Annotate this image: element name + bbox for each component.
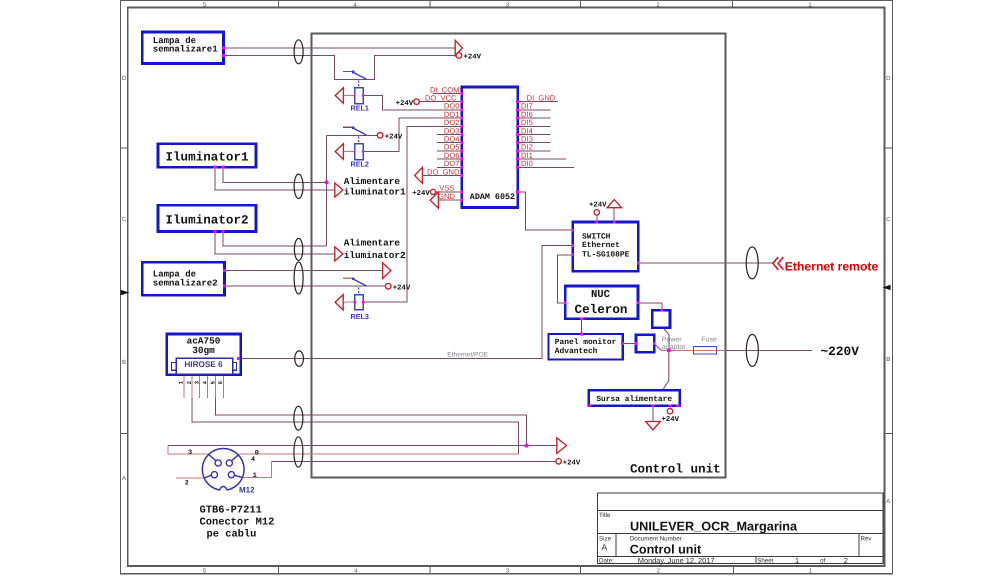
- svg-text:Rev: Rev: [861, 536, 873, 543]
- svg-text:HIROSE 6: HIROSE 6: [184, 360, 223, 369]
- svg-text:B: B: [886, 356, 890, 363]
- pin dots iluminator2: [214, 230, 217, 233]
- wire iluminator2 pin2 to feed bus end: [223, 232, 327, 246]
- relay REL2 coil: [351, 144, 369, 169]
- wire REL2 coil left to flag: [343, 151, 354, 153]
- node +24V switch: [589, 202, 607, 216]
- M12 pin2 lead: [204, 475, 211, 478]
- svg-text:Control unit: Control unit: [630, 543, 702, 557]
- svg-text:REL3: REL3: [351, 312, 369, 321]
- pin dots REL2 coil: [353, 150, 355, 152]
- M12 pin top-right: [226, 460, 232, 466]
- zone numbers top: [203, 1, 813, 8]
- junction dot 220V: [667, 348, 671, 352]
- wire 220V junction down to sursa alimentare: [663, 350, 669, 390]
- port flag lampa2 arrow: [383, 263, 391, 279]
- pin dots ADAM left: [460, 92, 463, 95]
- svg-text:+24V: +24V: [662, 416, 680, 424]
- wire switch pin3 to NUC left: [557, 255, 572, 303]
- svg-text:TL-SG108PE: TL-SG108PE: [582, 250, 630, 259]
- cable ellipse camera bus: [294, 406, 303, 430]
- zone letters right: [886, 75, 891, 505]
- wire REL1 coil left to flag: [343, 95, 354, 97]
- wire ADAM DI4 stub: [518, 134, 551, 136]
- title block labels: [599, 512, 872, 565]
- flag GND: [430, 192, 438, 208]
- svg-text:Conector M12: Conector M12: [200, 517, 275, 529]
- svg-text:SWITCH: SWITCH: [582, 232, 611, 241]
- component switch ethernet TL-SG108PE: [573, 222, 639, 271]
- svg-text:Sheet: Sheet: [757, 558, 773, 565]
- flag REL1 coil input: [335, 88, 343, 104]
- wire ADAM DO_VCC from +24V node: [419, 101, 461, 103]
- wire ADAM DI7 stub: [518, 109, 551, 111]
- cable ellipse lampa1: [294, 40, 303, 64]
- wire camera pin3 stub: [199, 375, 201, 398]
- wire ADAM DI0 stub: [518, 166, 575, 168]
- junction dot M12 bus: [524, 444, 528, 448]
- node +24V DO_VCC: [396, 99, 420, 108]
- component camera acA750 30gm: [167, 334, 241, 375]
- wire sursa to +24V node: [669, 406, 671, 409]
- flag alimentare iluminator1: [335, 176, 406, 197]
- pin dot camera: [237, 357, 240, 360]
- svg-text:REL2: REL2: [351, 160, 369, 169]
- wire lampa1 pin2 through REL1 contact to +24V node: [224, 56, 457, 80]
- label power adaptor: [662, 337, 686, 352]
- svg-text:30gm: 30gm: [192, 345, 215, 356]
- svg-text:adaptor: adaptor: [662, 343, 686, 351]
- flag alimentare iluminator2: [335, 238, 406, 261]
- svg-text:Celeron: Celeron: [575, 303, 628, 317]
- svg-text:~220V: ~220V: [821, 344, 860, 359]
- svg-text:1: 1: [795, 556, 799, 565]
- svg-text:GTB6-P7211: GTB6-P7211: [200, 505, 262, 517]
- wire lampa2 pin1 to port flag: [225, 270, 383, 272]
- svg-text:GND: GND: [438, 192, 455, 201]
- svg-text:DI0: DI0: [521, 159, 533, 168]
- svg-text:Ethernet remote: Ethernet remote: [785, 260, 879, 274]
- svg-text:+24V: +24V: [393, 284, 411, 292]
- wire adaptor block2 to 220V junction: [654, 344, 669, 350]
- svg-text:Panel monitor: Panel monitor: [555, 338, 617, 347]
- wire switch +24V stub: [596, 215, 598, 222]
- flag DO_GND: [415, 167, 423, 183]
- svg-text:Iluminator2: Iluminator2: [165, 213, 248, 227]
- svg-text:+24V: +24V: [464, 54, 482, 62]
- component iluminator2: [158, 205, 256, 231]
- power adaptor block1: [652, 310, 670, 328]
- pin dots REL3 coil: [354, 301, 356, 303]
- wire M12 pin1 to +24V node: [272, 460, 556, 462]
- power adaptor block2: [636, 335, 654, 353]
- M12 pin4 lead: [232, 454, 239, 460]
- cable ellipse lampa2: [294, 262, 303, 294]
- wire NUC right to adaptor block1: [638, 303, 662, 310]
- M12 pin bottom-right: [228, 472, 234, 478]
- svg-text:A: A: [122, 475, 126, 482]
- connector M12 body: [202, 449, 244, 495]
- svg-text:Power: Power: [662, 337, 683, 344]
- wire ADAM DI_GND stub: [518, 101, 558, 103]
- wire REL3 coil left to flag: [343, 301, 355, 303]
- svg-text:1: 1: [253, 472, 257, 480]
- port flag +24V top right arrow: [455, 40, 462, 55]
- wire ADAM DO5 stub: [437, 150, 462, 152]
- wire iluminator1 pin2 to feed bus junction: [223, 167, 327, 182]
- svg-text:3: 3: [188, 449, 192, 457]
- flag REL3 coil input: [335, 295, 343, 310]
- component iluminator1: [158, 144, 256, 167]
- wire iluminator1 pin1 to alimentare flag: [215, 167, 335, 190]
- wire NUC bottom to panel monitor: [581, 319, 583, 334]
- svg-text:DO_GND: DO_GND: [427, 167, 460, 176]
- zone letters left: [122, 75, 127, 482]
- wire ADAM GND to flag: [438, 199, 461, 201]
- wire ADAM ethernet pin to switch pin1: [518, 192, 573, 230]
- wire ADAM DI2 stub: [518, 150, 551, 152]
- wire camera pin5 to M12 bus: [216, 398, 527, 446]
- svg-text:+24V: +24V: [563, 460, 581, 468]
- component lampa de semnalizare2: [142, 262, 224, 295]
- M12 pin top-left: [215, 460, 221, 466]
- svg-text:iluminator2: iluminator2: [344, 250, 406, 261]
- svg-text:pe cablu: pe cablu: [207, 529, 257, 541]
- svg-text:Fuse: Fuse: [701, 337, 717, 344]
- svg-text:D: D: [122, 75, 127, 82]
- relay REL1 contact: [343, 71, 367, 88]
- svg-text:+24V: +24V: [412, 190, 430, 198]
- svg-text:Document Number: Document Number: [630, 536, 682, 543]
- svg-text:Iluminator1: Iluminator1: [165, 150, 249, 164]
- svg-text:UNILEVER_OCR_Margarina: UNILEVER_OCR_Margarina: [630, 520, 798, 534]
- right border center arrow: [883, 285, 891, 290]
- label GTB6-P7211 connector: [200, 505, 275, 541]
- wire fuse to ~220V source: [717, 349, 726, 351]
- svg-text:Advantech: Advantech: [555, 347, 598, 356]
- wire ADAM DI5 stub: [518, 125, 551, 127]
- wire REL2 contact to +24V node: [327, 134, 378, 136]
- cable ellipse M12 bus: [294, 437, 303, 467]
- component sursa alimentare: [589, 390, 680, 405]
- pin dots lampa1: [222, 47, 225, 50]
- svg-text:of: of: [820, 558, 825, 565]
- connector HIROSE 6: [172, 358, 237, 374]
- relay REL2 contact: [343, 126, 367, 143]
- node +24V sursa: [662, 409, 680, 424]
- svg-text:Monday, June 12, 2017: Monday, June 12, 2017: [638, 556, 715, 565]
- wire 220V junction to fuse: [662, 349, 694, 351]
- control unit enclosure box: [312, 33, 726, 477]
- svg-text:semnalizare1: semnalizare1: [153, 45, 218, 55]
- pin dots REL1 coil: [353, 94, 355, 96]
- wire ADAM DO4 stub: [437, 142, 462, 144]
- node +24V REL2 contact: [377, 133, 403, 142]
- svg-text:Sursa alimentare: Sursa alimentare: [596, 395, 672, 404]
- node +24V top circle: [456, 53, 482, 62]
- svg-text:+24V: +24V: [589, 202, 607, 210]
- wire camera pin4 stub: [207, 375, 209, 398]
- wire ADAM DO_GND to flag: [422, 175, 461, 177]
- svg-text:Date:: Date:: [599, 558, 614, 565]
- svg-text:D: D: [886, 75, 891, 82]
- relay REL1 coil: [351, 88, 369, 113]
- svg-text:Ethernet: Ethernet: [582, 241, 620, 250]
- wire M12 pin3 horizontal: [168, 445, 527, 447]
- svg-text:C: C: [122, 216, 127, 223]
- fuse F1: [694, 347, 717, 355]
- svg-text:4: 4: [251, 456, 255, 464]
- wire ADAM DI6 stub: [518, 117, 551, 119]
- wire lampa1 pin1 to +24V flag: [224, 47, 456, 49]
- ground flag sursa: [646, 422, 661, 431]
- wire M12 pin4 to camera bus: [239, 453, 518, 455]
- wire camera pin2 to M12 pin4 bus: [192, 398, 518, 454]
- M12 pin bottom-left: [211, 472, 217, 478]
- wire M12 pin2 stub: [176, 477, 204, 479]
- relay REL3 coil: [351, 295, 369, 321]
- cable ellipse ethernet poe: [295, 351, 304, 366]
- pin dots panel monitor: [580, 333, 583, 336]
- svg-text:NUC: NUC: [591, 289, 611, 301]
- pin dots adaptor block2: [635, 342, 638, 345]
- module ADAM 6052: [462, 87, 518, 208]
- svg-text:0: 0: [255, 449, 259, 457]
- M12 pin3 lead: [209, 454, 216, 460]
- cable ellipse iluminator2: [294, 238, 302, 260]
- pin dot adaptor block1: [660, 309, 663, 312]
- camera pin numbers 1-6: [178, 380, 225, 384]
- relay REL3 contact: [343, 277, 367, 294]
- svg-text:C: C: [886, 216, 891, 223]
- wire REL3 coil right to ADAM DO2: [363, 126, 461, 302]
- sheet outer border: [121, 1, 893, 574]
- wire switch power flag stub: [613, 208, 615, 222]
- svg-text:Alimentare: Alimentare: [344, 238, 401, 249]
- wire REL1 coil right to ADAM DO0: [363, 96, 462, 110]
- flag REL2 coil input: [335, 144, 343, 160]
- flag M12 bus arrow: [557, 438, 567, 454]
- wire ADAM DI3 stub: [518, 142, 551, 144]
- wire REL2 coil right to ADAM DO1: [363, 118, 462, 151]
- node +24V REL3 contact: [385, 283, 411, 292]
- cable ellipse ethernet remote: [746, 247, 758, 279]
- zone tick marks: [121, 1, 893, 574]
- pin dots ADAM right: [516, 100, 519, 103]
- pin dots lampa2: [223, 269, 226, 272]
- cable ellipse 220V: [746, 334, 758, 366]
- wire REL2 feed vertical bus: [326, 135, 328, 246]
- svg-text:ADAM 6052: ADAM 6052: [470, 192, 515, 202]
- svg-text:semnalizare2: semnalizare2: [153, 278, 218, 288]
- svg-text:M12: M12: [239, 486, 255, 495]
- wire camera pin6 stub: [222, 375, 224, 398]
- svg-text:+24V: +24V: [385, 133, 403, 141]
- svg-text:+24V: +24V: [396, 100, 414, 108]
- wire ADAM DO3 stub: [437, 134, 462, 136]
- node +24V M12 pin1: [556, 459, 581, 468]
- svg-text:A: A: [886, 498, 890, 505]
- wire switch to ethernet remote: [638, 262, 772, 264]
- wire camera pin1 stub: [183, 375, 185, 398]
- cable ellipse iluminator1: [294, 174, 303, 198]
- svg-text:Title: Title: [599, 512, 611, 519]
- pin dots sursa alimentare: [676, 404, 679, 407]
- port ethernet remote chevrons: [773, 257, 784, 270]
- left border center arrow: [121, 290, 130, 295]
- svg-text:A: A: [602, 542, 608, 552]
- wire M12 pin1 riser: [242, 461, 272, 477]
- wire ADAM DI_COM stub: [433, 93, 462, 95]
- wire panel monitor to adaptor block2: [623, 342, 636, 344]
- svg-text:B: B: [122, 359, 126, 366]
- junction dot iluminator feed bus: [325, 180, 329, 184]
- svg-text:2: 2: [185, 480, 189, 488]
- wire camera pin2 stub: [191, 375, 193, 398]
- wire ADAM DO6 stub: [437, 158, 462, 160]
- svg-text:REL1: REL1: [351, 104, 369, 113]
- M12 pin1 lead: [234, 475, 242, 477]
- component NUC celeron: [565, 286, 638, 319]
- node +24V VSS: [412, 189, 435, 198]
- component lampa de semnalizare1: [142, 32, 223, 64]
- svg-text:iluminator1: iluminator1: [344, 186, 406, 197]
- power flag switch triangle: [607, 200, 622, 208]
- wire camera pin5 stub: [215, 375, 217, 398]
- wire REL3 contact from lampa2 pin2 to +24V node: [225, 285, 386, 287]
- svg-text:Control unit: Control unit: [630, 463, 721, 477]
- wire adaptor block1 to 220V junction: [663, 327, 669, 350]
- wire ADAM DO7 stub: [437, 166, 462, 168]
- wire ADAM VSS from +24V node: [436, 191, 462, 193]
- zone numbers bottom: [203, 568, 813, 575]
- wire M12 junction to flag: [526, 445, 556, 447]
- svg-text:Ethernet/POE: Ethernet/POE: [447, 351, 488, 358]
- wire ADAM DI1 stub: [518, 158, 566, 160]
- wire iluminator2 pin1 to alimentare flag: [215, 232, 335, 254]
- svg-text:2: 2: [844, 556, 848, 565]
- pin dots switch: [571, 229, 574, 232]
- wire sursa to ground flag: [652, 406, 654, 422]
- wire camera Ethernet/POE to switch pin2: [239, 245, 573, 358]
- pin dots NUC: [564, 301, 567, 304]
- component panel monitor advantech: [549, 334, 623, 360]
- pin dots iluminator1: [214, 166, 217, 169]
- title block: [597, 493, 883, 564]
- wire M12 pin3 drop: [168, 446, 209, 455]
